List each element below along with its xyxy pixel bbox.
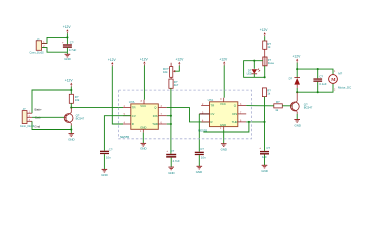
svg-text:4.7uF: 4.7uF bbox=[69, 48, 77, 52]
svg-text:+12V: +12V bbox=[65, 79, 74, 83]
wire U2 pin1 to GND bbox=[223, 130, 225, 144]
svg-text:Conn_01x02: Conn_01x02 bbox=[30, 52, 45, 55]
power +12V PWR6 (U2 VCC) bbox=[219, 57, 228, 65]
svg-text:10k: 10k bbox=[163, 70, 168, 74]
resistor R1 bbox=[69, 94, 80, 103]
svg-text:DIS: DIS bbox=[232, 112, 237, 116]
diode D2 flyback bbox=[289, 76, 300, 88]
wire J1 pin2 to C1 bottom bbox=[42, 48, 67, 53]
svg-text:D?: D? bbox=[289, 76, 293, 80]
power +12V PWR2 bbox=[65, 79, 74, 87]
transistor Q1 BC547 bbox=[64, 108, 84, 126]
svg-text:GND: GND bbox=[64, 57, 70, 61]
svg-text:GND: GND bbox=[140, 125, 146, 129]
fuse F1 bbox=[263, 57, 275, 66]
node J junction (LED anode) bbox=[253, 60, 255, 62]
svg-text:CV: CV bbox=[211, 112, 215, 116]
wire feedback THR to TR row bbox=[203, 122, 249, 132]
ground GND3 (U1) bbox=[140, 143, 146, 150]
wire +12V to node A bbox=[66, 33, 68, 37]
capacitor C2 (U1 CV) bbox=[100, 147, 113, 169]
wire bottom rail to motor bbox=[297, 83, 333, 92]
wire U1 pin6 THR to timing node bbox=[167, 123, 171, 125]
wire U2 pin6 THR right bbox=[246, 121, 264, 123]
wire diode bottom to node M bbox=[296, 88, 298, 92]
ground GND1 bbox=[64, 52, 70, 61]
svg-text:VCC: VCC bbox=[140, 104, 146, 108]
svg-text:Conn_01x03: Conn_01x03 bbox=[20, 125, 35, 128]
svg-text:GND: GND bbox=[168, 171, 174, 175]
capacitor C3 4.7uF (timing) bbox=[166, 149, 180, 167]
ground GND6 (C2) bbox=[101, 169, 107, 177]
power +12V PWR1 bbox=[63, 25, 72, 33]
wire node A to J1 pin1 bbox=[42, 37, 67, 43]
wire Q1 emitter to ground rail bbox=[70, 126, 72, 134]
svg-text:10k: 10k bbox=[75, 98, 80, 102]
svg-text:TR: TR bbox=[211, 104, 215, 108]
wire R3 to fuse F1 bbox=[264, 49, 266, 57]
svg-text:C?: C? bbox=[109, 147, 113, 151]
wire R1 bottom to Q1 collector bbox=[70, 103, 72, 107]
svg-text:TR: TR bbox=[132, 106, 136, 110]
svg-text:R: R bbox=[132, 122, 134, 126]
ground GND2 bbox=[68, 134, 74, 142]
potentiometer RV1 bbox=[163, 63, 175, 79]
svg-text:4.7uF: 4.7uF bbox=[173, 159, 180, 163]
ground GND4 (U2) bbox=[221, 144, 227, 152]
op-amp U1 NE555 bbox=[120, 100, 167, 139]
node D junction (emitter/ground rail) bbox=[70, 128, 72, 130]
svg-text:C?: C? bbox=[266, 146, 270, 150]
resistor R3 bbox=[263, 41, 272, 49]
resistor R2 (timing) bbox=[169, 79, 179, 88]
svg-text:C?: C? bbox=[171, 149, 175, 153]
svg-text:THR: THR bbox=[232, 120, 238, 124]
power +12V PWR8 (motor rail) bbox=[293, 55, 302, 63]
ground GND8 (C4) bbox=[196, 166, 202, 174]
node N junction (cap bottom) bbox=[317, 91, 319, 93]
svg-text:M?: M? bbox=[338, 71, 342, 75]
svg-text:GND: GND bbox=[220, 123, 226, 127]
wire U2 Q to R5 bbox=[246, 105, 274, 107]
wire +12V to U1 pin8 bbox=[143, 66, 145, 100]
svg-text:Gnd: Gnd bbox=[34, 125, 40, 129]
wire U1 pin7 DIS to timing node bbox=[167, 115, 171, 117]
capacitor C6 (U2 timing) bbox=[259, 146, 270, 165]
connector J3 bbox=[20, 107, 35, 128]
svg-text:GND: GND bbox=[196, 170, 202, 174]
power +12V PWR5 (pot wiper) bbox=[176, 58, 185, 66]
node E junction DIS bbox=[170, 115, 172, 117]
dashed group box bbox=[119, 90, 252, 139]
svg-text:+12V: +12V bbox=[63, 25, 72, 29]
wire U1 pin3 Q to U2 trigger bbox=[167, 108, 210, 122]
svg-text:DIS: DIS bbox=[153, 114, 158, 118]
wire +12V to U2 pin8 bbox=[223, 66, 225, 98]
ground GND9 (C6) bbox=[261, 165, 267, 173]
svg-text:NE555: NE555 bbox=[120, 135, 130, 139]
wire Q2 emitter to ground bbox=[296, 114, 298, 120]
wire J3 pin3 down to ground rail bbox=[32, 121, 71, 129]
svg-text:R?: R? bbox=[276, 100, 280, 104]
node K junction (diode top) bbox=[296, 68, 298, 70]
capacitor C1 4.7uF bbox=[62, 37, 77, 52]
wire +12V down to top rail bbox=[296, 63, 298, 78]
wire +12V rail to U1 pin4 bbox=[112, 66, 123, 124]
svg-text:GND: GND bbox=[221, 147, 227, 151]
svg-text:4k7: 4k7 bbox=[174, 83, 179, 87]
svg-text:+12V: +12V bbox=[293, 55, 302, 59]
svg-text:R: R bbox=[211, 120, 213, 124]
power +12V PWR4 (U1 VCC) bbox=[140, 57, 149, 65]
svg-text:C?: C? bbox=[70, 40, 74, 44]
wire +12V to pot wiper bbox=[175, 66, 179, 71]
svg-text:GND: GND bbox=[295, 123, 301, 127]
wire R5 to Q2 base bbox=[282, 105, 292, 107]
op-amp U2 NE555 bbox=[198, 98, 246, 133]
svg-text:Motor_DC: Motor_DC bbox=[338, 85, 351, 89]
wire J3 pin2 to Q1 base bbox=[32, 116, 64, 118]
svg-text:GND: GND bbox=[68, 138, 74, 142]
svg-text:VCC: VCC bbox=[220, 102, 226, 106]
svg-text:BC547: BC547 bbox=[304, 106, 313, 110]
wire fuse bottom to node I bbox=[264, 66, 266, 78]
power +12V PWR7 (LED rail) bbox=[260, 28, 269, 36]
node M junction (collector rail) bbox=[296, 91, 298, 93]
connector J1 bbox=[30, 37, 47, 54]
svg-text:GND: GND bbox=[261, 169, 267, 173]
wire top rail to motor bbox=[297, 69, 333, 75]
svg-text:C?: C? bbox=[319, 74, 323, 78]
svg-text:M: M bbox=[331, 77, 336, 82]
node G junction (feedback) bbox=[248, 121, 250, 123]
svg-text:+12V: +12V bbox=[140, 57, 149, 61]
node I junction bbox=[264, 76, 266, 78]
wire U2 CV pin5 to cap below bbox=[198, 114, 200, 152]
svg-text:Batt+: Batt+ bbox=[35, 107, 43, 111]
power +12V PWR3 (U1 reset rail) bbox=[108, 58, 117, 66]
wire node B to J3 pin1 (Batt+) bbox=[32, 90, 71, 113]
wire +12V to R3 bbox=[264, 36, 266, 41]
node C junction (Q1 collector / U1 TR) bbox=[70, 107, 72, 109]
svg-text:LED: LED bbox=[247, 72, 252, 76]
resistor R4 (U2 timing) bbox=[262, 88, 271, 97]
svg-text:0.1uF: 0.1uF bbox=[319, 82, 326, 86]
svg-text:GND: GND bbox=[101, 173, 107, 177]
svg-text:+12V: +12V bbox=[260, 28, 269, 32]
node L junction (cap top) bbox=[317, 68, 319, 70]
svg-text:+12V: +12V bbox=[176, 58, 185, 62]
wire LED loop left branch bbox=[244, 61, 265, 78]
node F junction THR bbox=[170, 123, 172, 125]
wire +12V down to R1 top bbox=[70, 87, 72, 95]
svg-text:+12V: +12V bbox=[219, 57, 228, 61]
svg-text:C?: C? bbox=[200, 147, 204, 151]
transistor Q2 BC547 bbox=[290, 92, 312, 114]
node B junction bbox=[70, 89, 72, 91]
wire U1 pin5 CV to cap below bbox=[104, 116, 130, 151]
svg-text:THR: THR bbox=[152, 122, 158, 126]
wire U1 pin1 to GND bbox=[142, 133, 144, 144]
svg-text:Fuse: Fuse bbox=[268, 61, 275, 65]
wire node H down to cap C6 bbox=[264, 122, 266, 151]
resistor R5 (Q2 base) bbox=[274, 100, 283, 112]
svg-text:CV: CV bbox=[132, 114, 136, 118]
svg-text:BC547: BC547 bbox=[76, 117, 85, 121]
svg-text:+: + bbox=[166, 149, 168, 153]
LED D1 bbox=[247, 61, 261, 78]
motor M1 bbox=[329, 71, 352, 92]
svg-text:10n: 10n bbox=[106, 156, 111, 160]
wire node C to U1 pin2 bbox=[71, 107, 123, 109]
node A junction bbox=[66, 36, 68, 38]
capacitor C4 (U2 CV) bbox=[195, 147, 206, 166]
wire R4 bottom to node H bbox=[264, 97, 266, 122]
svg-text:10n: 10n bbox=[201, 156, 206, 160]
wire timing node vertical bbox=[170, 88, 172, 154]
node H junction (timing R/C) bbox=[263, 121, 265, 123]
capacitor C5 100nF bbox=[313, 69, 326, 92]
ground GND7 (C3) bbox=[168, 167, 174, 175]
svg-text:+12V: +12V bbox=[108, 58, 117, 62]
svg-text:+: + bbox=[259, 146, 261, 150]
ground GND5 (Q2) bbox=[294, 120, 301, 128]
svg-text:GND: GND bbox=[140, 147, 146, 151]
